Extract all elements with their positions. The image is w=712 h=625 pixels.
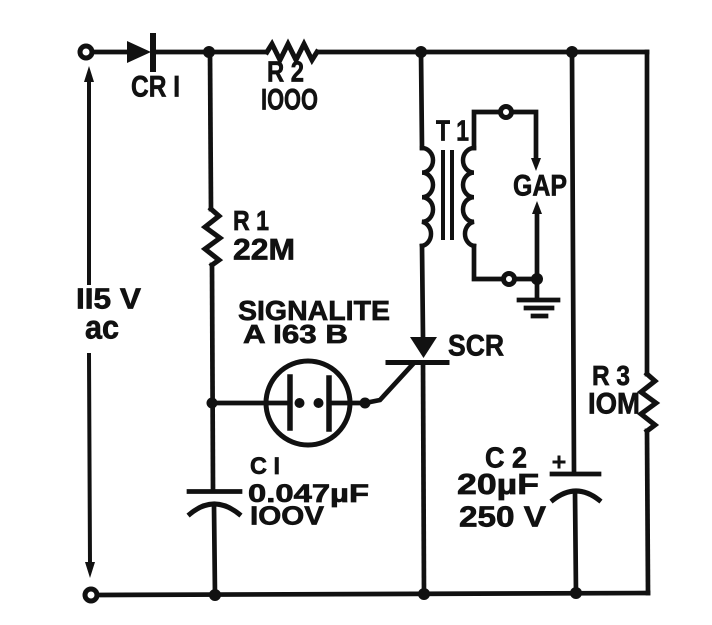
- svg-text:R 3: R 3: [592, 360, 630, 391]
- svg-text:GAP: GAP: [513, 170, 567, 203]
- svg-text:ac: ac: [85, 309, 119, 346]
- svg-text:IOOV: IOOV: [250, 501, 325, 531]
- svg-text:20µF: 20µF: [457, 469, 539, 501]
- svg-text:CR I: CR I: [131, 71, 180, 104]
- svg-text:A I63 B: A I63 B: [243, 319, 348, 349]
- svg-text:T 1: T 1: [436, 116, 469, 148]
- svg-text:IOM: IOM: [588, 388, 640, 421]
- svg-text:IOOO: IOOO: [261, 84, 318, 117]
- svg-text:SCR: SCR: [448, 330, 504, 363]
- svg-text:250 V: 250 V: [459, 502, 547, 534]
- svg-text:R 1: R 1: [233, 205, 269, 236]
- svg-text:C I: C I: [250, 453, 280, 480]
- svg-text:22M: 22M: [233, 234, 295, 267]
